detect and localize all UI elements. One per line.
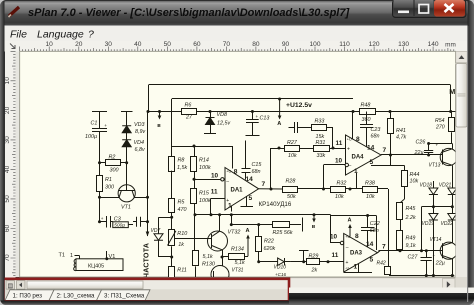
svg-text:R45: R45: [406, 206, 417, 212]
wire DA1 supply row: [172, 146, 232, 148]
svg-text:A: A: [246, 228, 250, 234]
svg-text:100µ: 100µ: [85, 134, 97, 140]
svg-text:R38: R38: [365, 180, 375, 186]
wire DA3 pin10 + feedback loop: [340, 241, 343, 244]
resistor R49 body: [397, 231, 403, 250]
resistor R48 body: [360, 109, 376, 115]
canvas gray surround: [16, 52, 456, 278]
wire feedback DA1 to R27: [270, 148, 272, 189]
trimmer R10 1k: [171, 217, 173, 230]
wire VT14 emitter: [452, 259, 454, 276]
svg-text:27: 27: [185, 114, 193, 120]
svg-text:R1: R1: [105, 177, 112, 183]
title bar: [0, 0, 474, 26]
svg-text:+U12.5v: +U12.5v: [286, 102, 312, 109]
arrow tap v2: [313, 215, 315, 222]
node rail junction left: [147, 110, 150, 113]
resistor R33 body: [312, 125, 327, 131]
node FREQUENCY output arrow: [146, 232, 150, 237]
svg-text:R15: R15: [199, 191, 210, 197]
resistor R5 body: [169, 199, 175, 213]
svg-text:КР140УД16: КР140УД16: [259, 201, 292, 208]
svg-text:40: 40: [4, 165, 11, 173]
svg-text:10k: 10k: [288, 153, 297, 159]
svg-text:68n: 68n: [252, 169, 261, 175]
svg-text:C26: C26: [416, 140, 426, 146]
svg-text:DA3: DA3: [350, 250, 363, 256]
svg-text:10: 10: [46, 41, 54, 48]
svg-text:68n: 68n: [371, 133, 380, 139]
wire DA1 pin 11 input: [211, 198, 225, 200]
svg-text:1k: 1k: [178, 242, 184, 248]
svg-text:+C16: +C16: [275, 272, 287, 277]
rectifier V1 KTs405 with transformer T1: [76, 259, 123, 271]
svg-text:620k: 620k: [264, 246, 276, 252]
svg-text:R11: R11: [177, 268, 187, 274]
resistor R8 body: [169, 157, 175, 172]
svg-text:-U: -U: [345, 266, 349, 270]
wire VT14 collector: [452, 242, 454, 243]
menu bar: [4, 26, 468, 41]
svg-text:DA4: DA4: [352, 154, 365, 160]
resistor R6: [161, 111, 181, 113]
resistor R42 body: [385, 267, 391, 275]
scrollbar strip inside red box: [5, 281, 288, 290]
svg-text:VD8: VD8: [217, 112, 228, 118]
resistor R27 10k: [279, 148, 285, 150]
wire rail drop left: [148, 85, 150, 112]
horizontal scrollbar track right part: [290, 279, 456, 291]
wire VT13 emitter down: [452, 165, 454, 186]
node cap tap: [146, 220, 149, 223]
resistor R44 10k: [404, 166, 406, 171]
node +U12.5v: [278, 98, 281, 101]
svg-text:100k: 100k: [199, 165, 211, 171]
diode VD22 symbol: [448, 214, 457, 221]
resistor R22 620k: [257, 223, 260, 226]
node VD8 tap: [209, 110, 212, 113]
ground DA1 pin5: [246, 196, 248, 207]
svg-text:?: ?: [88, 29, 94, 41]
svg-text:80: 80: [252, 41, 260, 48]
wire collector bus: [195, 214, 331, 216]
wire top supply rail: [149, 84, 450, 86]
resistor R28 body: [283, 187, 298, 193]
wire DA1 pin1 stub: [231, 206, 233, 212]
wire +12.5v rail: [172, 98, 353, 100]
svg-text:ЧАСТОТА: ЧАСТОТА: [143, 243, 150, 278]
svg-text:1: 1: [70, 253, 73, 259]
svg-text:270: 270: [435, 125, 445, 131]
svg-text:R49: R49: [406, 236, 416, 242]
svg-text:T1: T1: [59, 253, 66, 259]
resistor R2: [98, 161, 101, 164]
minimize glyph: [398, 11, 409, 14]
resistor R45 body: [397, 203, 403, 220]
svg-text:C15: C15: [252, 162, 263, 168]
svg-text:8,9v: 8,9v: [135, 129, 145, 135]
diode VD10: [259, 261, 278, 263]
transistor VT32: [208, 231, 228, 251]
svg-text:7: 7: [382, 244, 386, 251]
arrow node A up: [247, 236, 249, 257]
app icon (pencil): [9, 7, 20, 17]
wire rail drop right: [450, 85, 452, 112]
red annotation rectangle: [4, 279, 290, 302]
svg-text:6,8v: 6,8v: [135, 147, 145, 153]
svg-text:100k: 100k: [199, 198, 211, 204]
wire DA4 +U supply: [352, 112, 354, 140]
horizontal ruler: [20, 47, 454, 52]
svg-text:11: 11: [211, 188, 218, 195]
resistor R15 100k: [194, 179, 196, 189]
svg-text:70: 70: [4, 254, 11, 262]
trimmer arrow R10: [168, 231, 176, 246]
wire bottom rail: [389, 275, 454, 277]
svg-text:VT32: VT32: [228, 230, 241, 236]
resistor R11 body: [169, 267, 175, 279]
svg-text:50: 50: [164, 41, 172, 48]
svg-text:R27: R27: [287, 140, 298, 146]
node R32 fb: [322, 188, 325, 191]
svg-text:1: П30 рез: 1: П30 рез: [13, 293, 43, 300]
svg-text:5: 5: [370, 159, 374, 166]
svg-text:R33: R33: [315, 119, 325, 125]
wire to R25: [231, 224, 273, 226]
svg-text:File: File: [10, 29, 27, 41]
svg-text:4,7k: 4,7k: [396, 135, 406, 141]
svg-text:VD7: VD7: [151, 228, 161, 234]
node R15 wire1: [194, 213, 197, 216]
svg-text:в: в: [312, 224, 316, 230]
svg-text:10: 10: [211, 172, 219, 179]
svg-text:2.2k: 2.2k: [405, 215, 416, 221]
svg-text:R41: R41: [396, 128, 406, 134]
svg-text:VT31: VT31: [232, 268, 244, 274]
node R29 DA3 pin11: [327, 260, 330, 263]
svg-text:10: 10: [4, 77, 11, 85]
resistor R29 body: [307, 259, 320, 265]
svg-text:+: +: [226, 198, 229, 204]
svg-text:9,1k: 9,1k: [406, 243, 416, 249]
svg-text:–: –: [346, 245, 349, 251]
svg-text:8: 8: [355, 233, 359, 240]
svg-text:5: 5: [249, 195, 253, 202]
close glyph: [445, 4, 454, 12]
svg-text:VT1: VT1: [121, 205, 131, 211]
node R14 R15 pin10: [193, 178, 196, 181]
resistor R25 body: [273, 222, 290, 228]
svg-text:КЦ405: КЦ405: [88, 263, 104, 269]
svg-text:R31: R31: [316, 140, 326, 146]
svg-text:+: +: [347, 146, 350, 152]
node VT14 base: [420, 249, 423, 252]
power tap arrow A: [279, 99, 281, 119]
node C26 top: [427, 142, 430, 145]
svg-text:R22: R22: [264, 238, 274, 244]
resistor R2 body: [106, 160, 121, 166]
svg-text:R28: R28: [286, 178, 296, 184]
node R32 R38: [349, 188, 352, 191]
svg-text:130: 130: [398, 41, 409, 48]
node tap v: [158, 110, 161, 113]
zener VD4 6.8v: [126, 133, 128, 140]
svg-text:+: +: [256, 114, 259, 119]
svg-text:70: 70: [223, 41, 231, 48]
resistor R41 4.7k: [390, 112, 392, 120]
resistor R10 body: [169, 230, 175, 246]
wire to VT14 base: [421, 207, 423, 251]
svg-text:C13: C13: [260, 116, 270, 122]
resistor R8 1.5k: [171, 146, 173, 156]
zener VD8 symbol: [206, 117, 215, 119]
diode VD19 symbol: [429, 214, 438, 221]
terminal bar: [302, 218, 304, 232]
svg-text:в: в: [157, 123, 161, 129]
svg-text:–: –: [349, 163, 352, 169]
transistor VT31: [222, 257, 224, 266]
capacitor C15 68n: [245, 141, 247, 169]
svg-text:10k: 10k: [335, 194, 344, 200]
svg-text:40: 40: [134, 41, 142, 48]
svg-text:300: 300: [110, 167, 119, 173]
svg-text:60: 60: [4, 225, 11, 233]
svg-text:R29: R29: [309, 254, 319, 260]
capacitor bar before R29: [299, 250, 309, 252]
zener VD8 12.5v: [210, 112, 212, 118]
svg-text:12,5v: 12,5v: [217, 121, 230, 127]
wire VT32 emitter: [222, 250, 224, 257]
wire DA1 pin8 supply: [232, 146, 234, 169]
svg-text:+: +: [436, 142, 439, 147]
svg-text:R14: R14: [199, 158, 209, 164]
svg-text:VD21: VD21: [439, 182, 452, 188]
svg-text:VD18: VD18: [420, 182, 433, 188]
svg-text:R6: R6: [185, 103, 192, 109]
svg-text:90: 90: [282, 41, 290, 48]
svg-text:300: 300: [105, 185, 114, 191]
svg-text:50: 50: [4, 195, 11, 203]
wire DA3 output: [378, 251, 381, 253]
wire VT32 collector up: [219, 215, 221, 232]
op-amp DA4: [346, 135, 382, 175]
svg-text:C22: C22: [370, 221, 380, 227]
wire vertical feed left: [147, 112, 149, 237]
resistor R32 body: [331, 187, 346, 193]
resistor R22 body: [256, 237, 262, 252]
svg-text:mm: mm: [445, 42, 456, 49]
wire DA4 pin1: [356, 173, 358, 189]
svg-text:22µ: 22µ: [414, 150, 424, 156]
resistor R44 body: [402, 171, 408, 187]
resistor R11: [171, 257, 173, 267]
vertical ruler: [11, 51, 16, 275]
svg-text:VD10: VD10: [274, 264, 287, 270]
svg-text:110: 110: [339, 41, 350, 48]
capacitor C1 100u: [92, 111, 107, 113]
svg-text:8: 8: [356, 136, 360, 143]
svg-text:R48: R48: [361, 103, 371, 109]
svg-text:C23: C23: [371, 127, 381, 133]
node VT32 emitter R134: [221, 256, 224, 259]
svg-text:C27: C27: [408, 255, 419, 261]
node VD4 R2 VT1 base: [125, 161, 128, 164]
svg-text:68n: 68n: [370, 228, 379, 234]
svg-text:30: 30: [4, 136, 11, 144]
svg-text:R8: R8: [178, 158, 185, 164]
svg-text:VD22: VD22: [441, 221, 454, 227]
svg-text:11: 11: [336, 140, 343, 147]
svg-text:10k: 10k: [410, 178, 419, 184]
capacitor C26 22u: [427, 154, 430, 157]
wire DA4 pin10 input: [345, 163, 348, 166]
svg-text:V1: V1: [109, 254, 116, 260]
svg-text:+U: +U: [347, 137, 352, 141]
node drop to R25: [230, 213, 233, 216]
wire mid supply rail: [148, 111, 456, 113]
resistor R38 body: [363, 187, 378, 193]
power tap arrow v: [159, 112, 161, 119]
ground DA3 pin5: [358, 264, 360, 273]
ruler strip bg: [4, 41, 467, 52]
svg-text:11: 11: [332, 252, 339, 259]
svg-text:R54: R54: [435, 118, 445, 124]
resistor R134 body: [229, 254, 245, 260]
resistor R130 body: [193, 251, 199, 266]
node R48 right: [389, 110, 392, 113]
capacitor C13: [251, 110, 254, 113]
svg-text:R134: R134: [231, 247, 244, 253]
svg-text:2: L30_схема: 2: L30_схема: [57, 293, 95, 300]
svg-text:–: –: [226, 178, 229, 184]
resistor R6 body: [182, 109, 197, 115]
window buttons group: [393, 0, 467, 18]
svg-text:500µ: 500µ: [114, 223, 125, 229]
wire DA1 output pin7: [259, 188, 283, 190]
svg-text:VD19: VD19: [422, 221, 435, 227]
svg-text:20: 20: [75, 41, 83, 48]
capacitor C5 (small, near VT1): [133, 221, 137, 223]
bottom panel background: [4, 278, 467, 302]
svg-text:VT14: VT14: [430, 237, 442, 243]
node pin11 junction: [210, 213, 213, 216]
svg-text:5,1k: 5,1k: [235, 260, 245, 266]
corner between scrollbars: [456, 277, 468, 301]
svg-text:8: 8: [234, 168, 238, 175]
svg-text:10k: 10k: [366, 194, 375, 200]
svg-text:+: +: [433, 253, 436, 258]
resistor R41 body: [388, 119, 394, 134]
svg-text:Language: Language: [37, 29, 84, 41]
capacitor C3 500u: [99, 197, 101, 222]
diode VD7 symbol: [154, 234, 163, 241]
svg-text:14: 14: [246, 176, 254, 183]
wire R10 wiper to VT32: [175, 238, 212, 240]
svg-text:5: 5: [370, 257, 374, 264]
node R1 VT1 emitter: [98, 196, 101, 199]
resistor R14 body: [191, 157, 197, 172]
node DA1 out: [270, 188, 273, 191]
svg-text:▤: ▤: [8, 283, 14, 289]
zener VD3 8.9v: [121, 111, 133, 113]
wire R41 to pin5 feedback: [390, 155, 392, 166]
svg-text:100: 100: [309, 41, 320, 48]
wire to R42: [388, 189, 390, 266]
svg-text:33k: 33k: [317, 153, 326, 159]
schematic page: [20, 51, 456, 277]
wire DA4 output: [381, 154, 443, 156]
wire R33 down to pin11 node: [332, 128, 334, 149]
arrow A DA3: [349, 225, 351, 237]
svg-text:DA1: DA1: [231, 187, 244, 193]
svg-text:+U: +U: [226, 170, 231, 174]
resistor R31 body: [314, 146, 330, 152]
node R22 VD10: [257, 260, 260, 263]
resistor R130 5.1k: [194, 215, 196, 251]
resistor R14 100k: [193, 145, 196, 148]
capacitor C14 plates: [289, 127, 295, 129]
svg-text:7: 7: [383, 147, 387, 154]
zener VD3 symbol: [122, 125, 131, 127]
svg-text:A: A: [348, 218, 352, 224]
vertical scrollbar: [456, 52, 468, 278]
svg-text:R25 56k: R25 56k: [273, 230, 293, 236]
node V1 input: [105, 257, 108, 260]
diode VD18 symbol: [429, 188, 438, 195]
svg-text:+: +: [101, 216, 104, 221]
svg-text:20: 20: [4, 106, 11, 114]
svg-text:10: 10: [330, 234, 338, 241]
ruler corner icon: [10, 44, 15, 49]
svg-text:R130: R130: [202, 262, 215, 268]
resistor R15 body: [191, 189, 197, 204]
svg-text:1,5k: 1,5k: [177, 165, 187, 171]
svg-text:5,1k: 5,1k: [203, 254, 213, 260]
transistor VT13: [440, 148, 457, 165]
capacitor C23 68n: [366, 112, 368, 125]
node v arrow near DA3: [313, 213, 316, 216]
wire DA1 pin 10: [194, 179, 221, 181]
svg-text:VD3: VD3: [134, 122, 145, 128]
transistor VT1: [118, 185, 135, 202]
svg-text:120: 120: [369, 41, 380, 48]
resistor R27 body: [285, 146, 300, 152]
resistor R134 5.1k: [222, 256, 228, 258]
svg-text:sPlan 7.0 - Viewer - [C:\Users: sPlan 7.0 - Viewer - [C:\Users\bigmanlav…: [28, 7, 349, 19]
resistor R29 2k: [291, 261, 307, 263]
node R5 R10 VD7: [170, 216, 173, 219]
svg-text:VD4: VD4: [134, 140, 145, 146]
svg-text:7: 7: [262, 181, 266, 188]
svg-text:470: 470: [178, 207, 187, 213]
svg-text:+: +: [346, 260, 349, 266]
node R31 R33: [332, 147, 335, 150]
node R41 out: [389, 154, 392, 157]
capacitor C27 22u: [425, 249, 428, 252]
svg-text:VT13: VT13: [429, 163, 441, 169]
diode VD19: [433, 207, 435, 214]
svg-text:R32: R32: [337, 180, 347, 186]
svg-text:2k: 2k: [311, 268, 318, 274]
node R10 R11: [170, 256, 173, 259]
diode VD22: [452, 207, 454, 214]
resistor R54 body: [449, 118, 455, 132]
diode VD7: [159, 217, 172, 219]
resistor R1 body: [97, 176, 103, 192]
svg-text:10: 10: [335, 157, 343, 164]
svg-text:50k: 50k: [287, 194, 296, 200]
svg-text:140: 140: [428, 41, 439, 48]
